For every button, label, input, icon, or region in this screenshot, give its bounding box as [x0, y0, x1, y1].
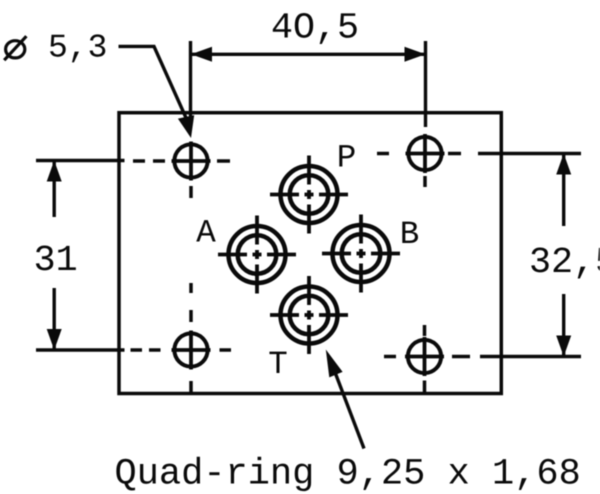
mounting hole TR [406, 134, 445, 173]
label 32,5 [531, 247, 600, 278]
label port A [196, 220, 215, 241]
dimension 31 line segments [53, 161, 56, 351]
dimension 32,5 extension line bottom [480, 355, 581, 358]
arrowhead leader quad-ring [326, 350, 343, 378]
arrowhead 40,5 right [405, 47, 426, 62]
dimension 31 extension line bottom [36, 348, 125, 351]
leader line diameter 5,3 [119, 46, 188, 120]
plate outline [119, 113, 501, 394]
mounting hole TL [172, 142, 211, 181]
leader line quad-ring [333, 367, 364, 449]
dimension 40,5 extension line left [189, 41, 192, 120]
port B [322, 215, 400, 293]
arrowhead 32,5 bottom [556, 336, 571, 357]
port P [270, 156, 348, 234]
port T [270, 276, 348, 354]
label 31 [36, 245, 76, 270]
dimension 32,5 line segments [562, 154, 565, 357]
centerline dashes hole TR [377, 154, 461, 188]
arrowhead 31 bottom [47, 329, 62, 350]
label port T [269, 352, 286, 373]
label port B [402, 222, 418, 243]
dimension 31 extension line top [36, 159, 125, 162]
port A [218, 216, 296, 294]
dimension 32,5 extension line top [478, 152, 581, 155]
label diameter 5,3 [4, 36, 26, 60]
arrowhead 32,5 top [556, 154, 571, 175]
label port P [339, 145, 354, 166]
arrowhead leader 5,3 [178, 115, 194, 138]
arrowhead 31 top [47, 161, 62, 182]
dimension 40,5 line [191, 53, 426, 56]
label 40,5 [273, 13, 357, 44]
dimension 40,5 extension line right [424, 41, 427, 127]
centerline dashes hole BR [384, 325, 470, 394]
label quad-ring [116, 457, 578, 491]
arrowhead 40,5 left [191, 47, 212, 62]
centerline dashes hole BL [131, 283, 232, 394]
mounting hole BR [405, 337, 444, 376]
mounting hole BL [172, 331, 211, 370]
centerline dashes hole TL [133, 161, 230, 198]
